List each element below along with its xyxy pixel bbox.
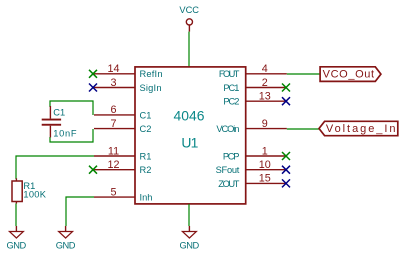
svg-text:5: 5	[110, 186, 116, 198]
wire pin 9 to Voltage_In	[287, 128, 319, 130]
pin 1 PCP	[223, 145, 287, 161]
svg-text:2: 2	[262, 77, 268, 89]
svg-text:3: 3	[110, 77, 116, 89]
svg-text:VCC: VCC	[179, 5, 199, 15]
no-connect X pin 14	[89, 70, 97, 78]
svg-text:9: 9	[262, 118, 268, 130]
svg-text:R1: R1	[140, 151, 152, 161]
svg-text:4046: 4046	[174, 107, 205, 123]
svg-text:1: 1	[262, 145, 268, 157]
wire pin 5 to ground	[66, 197, 94, 226]
svg-text:12: 12	[107, 159, 119, 171]
svg-text:Inh: Inh	[140, 193, 153, 203]
wire VCC to U1 top	[188, 32, 190, 67]
pin 9 VCOin	[216, 118, 286, 134]
no-connect X pin 1	[282, 152, 290, 160]
wire pin 11 to R1	[16, 156, 94, 179]
svg-text:PCP: PCP	[223, 151, 240, 161]
pin 10 SFout	[216, 159, 287, 175]
pin 4 FOUT	[219, 63, 287, 79]
svg-text:11: 11	[108, 145, 119, 157]
svg-text:PC1: PC1	[223, 83, 239, 93]
svg-text:6: 6	[110, 104, 116, 116]
pin 13 PC2	[223, 91, 286, 107]
pin 12 R2	[94, 159, 151, 175]
svg-text:VCO_Out: VCO_Out	[323, 68, 375, 80]
svg-text:C1: C1	[53, 107, 65, 117]
wire C1 bottom to pin 7	[50, 129, 93, 142]
svg-text:7: 7	[110, 118, 116, 130]
svg-text:PC2: PC2	[223, 97, 239, 107]
capacitor C1	[42, 106, 61, 137]
no-connect X pin 15	[282, 179, 290, 187]
pin 11 R1	[94, 145, 151, 161]
pin 14 RefIn	[94, 63, 163, 79]
ground GND3	[180, 226, 200, 251]
svg-text:GND: GND	[7, 241, 27, 251]
svg-text:C2: C2	[140, 124, 152, 134]
global label Voltage_In	[319, 121, 398, 135]
ground GND2	[56, 226, 76, 251]
pin 5 Inh	[94, 186, 152, 202]
pin 3 SigIn	[94, 77, 162, 93]
svg-text:R2: R2	[140, 165, 152, 175]
svg-text:14: 14	[107, 63, 119, 75]
svg-text:VCOin: VCOin	[216, 124, 239, 134]
global label VCO_Out	[320, 67, 381, 82]
svg-text:U1: U1	[181, 134, 198, 150]
wire pin 4 to VCO_Out	[287, 73, 320, 75]
svg-text:GND: GND	[56, 241, 76, 251]
pin 6 C1	[94, 104, 151, 120]
no-connect X pin 3	[89, 84, 97, 92]
ic U1 4046 body	[135, 67, 246, 204]
svg-text:Voltage_In: Voltage_In	[326, 123, 396, 135]
wire R1 to ground	[15, 204, 17, 227]
wire U1 bottom to ground	[188, 204, 190, 226]
pin 2 PC1	[223, 77, 286, 93]
svg-text:10: 10	[259, 159, 271, 171]
svg-text:15: 15	[259, 173, 271, 185]
wire C1 top to pin 6	[50, 101, 93, 115]
pin 15 ZOUT	[218, 173, 287, 189]
svg-text:GND: GND	[180, 241, 200, 251]
no-connect X pin 10	[282, 166, 290, 174]
svg-text:RefIn: RefIn	[140, 69, 163, 79]
svg-text:ZOUT: ZOUT	[218, 179, 239, 189]
ground GND1	[7, 226, 27, 251]
power symbol VCC	[179, 5, 199, 32]
svg-text:100K: 100K	[23, 189, 46, 199]
svg-text:4: 4	[262, 63, 268, 75]
resistor R1	[12, 178, 22, 203]
svg-text:SFout: SFout	[216, 165, 240, 175]
svg-text:13: 13	[259, 91, 271, 103]
no-connect X pin 2	[282, 84, 290, 92]
no-connect X pin 12	[89, 166, 97, 174]
svg-text:C1: C1	[140, 110, 152, 120]
no-connect X pin 13	[282, 97, 290, 105]
svg-text:10nF: 10nF	[53, 129, 77, 139]
svg-text:FOUT: FOUT	[219, 69, 240, 79]
pin 7 C2	[94, 118, 151, 134]
svg-text:SigIn: SigIn	[140, 83, 162, 93]
